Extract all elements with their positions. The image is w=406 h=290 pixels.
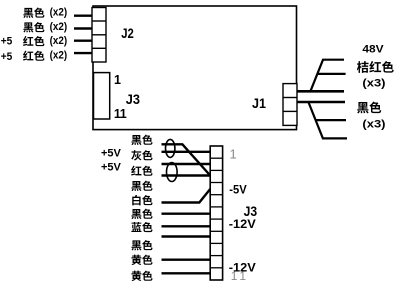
wire J2 pin 1 (black) xyxy=(74,14,93,16)
wire J2 pin 4 (red) xyxy=(74,52,93,54)
label 黑色 row 8 xyxy=(131,240,152,250)
svg-text:(x2): (x2) xyxy=(50,7,68,19)
svg-text:+5V: +5V xyxy=(101,161,122,173)
svg-text:J3: J3 xyxy=(126,91,140,107)
svg-text:-12V: -12V xyxy=(229,217,256,231)
label 红色 (x2) pin 4 xyxy=(1,50,68,63)
wire J1 48V bus (thick) xyxy=(297,90,344,93)
wire J1 black branch down-diagonal xyxy=(308,102,347,138)
label 红色 row 3 xyxy=(131,166,152,176)
label 白色 row 5 xyxy=(132,195,152,205)
svg-text:J2: J2 xyxy=(121,25,134,41)
wire black2 to J3 pin 3 xyxy=(162,174,211,176)
label 黑色 row 4 xyxy=(131,181,152,191)
label 黑色 (x2) pin 2 xyxy=(23,21,67,33)
wire black3 to J3 pin 6 xyxy=(162,212,211,214)
svg-text:(x2): (x2) xyxy=(50,50,68,62)
svg-text:(x3): (x3) xyxy=(362,78,385,90)
label 黄色 row 10 xyxy=(131,271,152,281)
wire J1 black branch middle xyxy=(315,119,346,121)
svg-text:+5: +5 xyxy=(1,36,13,48)
svg-text:11: 11 xyxy=(231,269,247,283)
label 灰色 row 2 xyxy=(131,150,152,160)
svg-text:J1: J1 xyxy=(252,95,266,111)
svg-text:1: 1 xyxy=(114,73,121,87)
label 桔红色 (orange-red wires) xyxy=(357,61,394,73)
wire red to J3 pin 2 xyxy=(162,163,211,165)
label 黑色 row 1 xyxy=(131,135,152,145)
wire J2 pin 2 (black) xyxy=(74,27,93,29)
label 黄色 row 9 xyxy=(131,255,152,265)
label 黑色 row 6 xyxy=(131,209,152,219)
label 黑色 (black wires) xyxy=(357,101,381,113)
connector J3 (board, 11-pin) xyxy=(94,73,110,119)
wire J1 orange branch up-diagonal xyxy=(310,60,344,92)
wire gray to J3 pin 1 xyxy=(162,151,211,153)
wire J2 pin 3 (red) xyxy=(74,40,93,42)
twisted-pair loop 2 xyxy=(167,163,178,182)
wire black4 to J3 pin 8 xyxy=(162,235,211,237)
power supply board outline xyxy=(93,6,297,130)
svg-text:1: 1 xyxy=(230,146,237,161)
svg-text:11: 11 xyxy=(114,107,127,121)
label 红色 (x2) pin 3 xyxy=(1,35,68,48)
svg-text:+5: +5 xyxy=(1,51,13,63)
wire J1 return bus (thick) xyxy=(297,101,345,104)
svg-text:(x3): (x3) xyxy=(362,118,385,130)
connector J2 (4-pin header) xyxy=(92,8,106,63)
label 蓝色 row 7 xyxy=(131,222,152,232)
svg-text:+5V: +5V xyxy=(101,148,122,160)
svg-text:(x2): (x2) xyxy=(50,35,68,47)
twisted-pair loop 1 xyxy=(166,139,175,157)
svg-text:-5V: -5V xyxy=(229,183,246,197)
wire black1 to J3 pin 3 xyxy=(162,144,211,175)
svg-text:(x2): (x2) xyxy=(50,21,68,33)
label 黑色 (x2) pin 1 xyxy=(23,7,67,19)
wire yellow1 to J3 pin 10 xyxy=(162,259,211,261)
connector J3 detail (11-pin ladder) xyxy=(210,146,222,280)
wire yellow2 to J3 pin 11 xyxy=(162,272,211,274)
wire white to J3 pin 4 xyxy=(162,189,211,203)
wire blue to J3 pin 7 xyxy=(162,225,211,227)
svg-text:48V: 48V xyxy=(362,43,384,55)
wire J1 orange branch middle xyxy=(317,73,346,75)
connector J1 (3-pin) xyxy=(283,84,297,126)
